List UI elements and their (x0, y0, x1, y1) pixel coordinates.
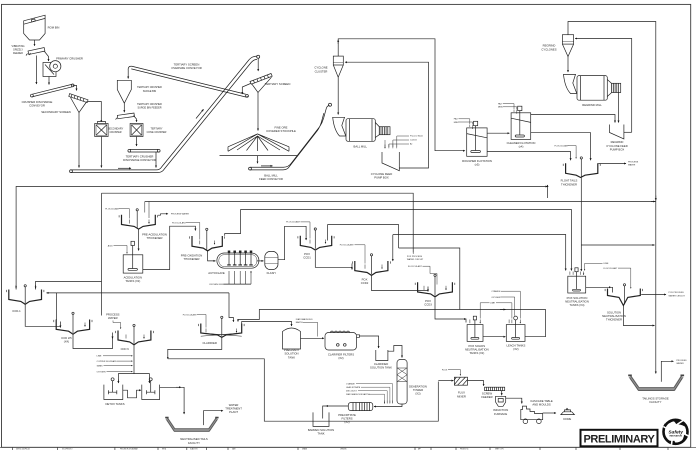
ccd 2/5 thickeners (54, 312, 92, 343)
wire: rougher concentrate to cleaner (487, 132, 509, 134)
svg-text:TERTIARY: TERTIARY (151, 128, 163, 131)
wire: ccd-1 underflow to ccd-2/5 (25, 304, 60, 327)
wire: conveyor head to secondary screen (73, 85, 77, 90)
svg-text:OXYGEN: OXYGEN (209, 284, 218, 286)
wire: flocculant to pox ccd1 (286, 221, 310, 239)
svg-text:SCREW: SCREW (482, 392, 493, 396)
svg-text:SOLUTION: SOLUTION (284, 352, 298, 356)
wire: trunk F to pox solution neutralisation (393, 235, 566, 271)
svg-text:(x5): (x5) (475, 163, 480, 167)
wire: autoclave to flash (257, 260, 264, 262)
pox ccd2 thickener (352, 254, 390, 285)
wire: pox ccd3 underflow to pox solids neutralisation (435, 298, 466, 323)
svg-text:POX: POX (425, 299, 431, 303)
cascade table and moulds (521, 399, 553, 423)
svg-text:ROUGHER FLOTATION: ROUGHER FLOTATION (462, 159, 492, 163)
wire: secondary screen oversize to secondary crusher (88, 102, 102, 122)
flash vessel (265, 251, 278, 275)
svg-text:ACID: ACID (108, 244, 113, 247)
svg-text:CASCADE TABLE: CASCADE TABLE (530, 399, 553, 403)
svg-text:LIME: LIME (490, 303, 495, 305)
svg-text:CLEANER FLOTATION: CLEANER FLOTATION (507, 141, 536, 145)
tertiary crusher discharge conveyor (123, 149, 160, 162)
svg-text:REGRIND: REGRIND (543, 44, 556, 48)
precipitate filters (338, 403, 373, 425)
wire: process water to ccd-6 (106, 313, 121, 329)
svg-text:TERTIARY CRUSHER: TERTIARY CRUSHER (137, 103, 162, 106)
svg-text:PRE-OXIDATION: PRE-OXIDATION (181, 254, 203, 258)
wire: surge bin to feeder (123, 103, 125, 112)
svg-text:TERTIARY CRUSHER: TERTIARY CRUSHER (137, 86, 162, 89)
svg-text:CCD-1: CCD-1 (12, 309, 21, 313)
svg-text:CYCLONE FEED: CYCLONE FEED (371, 172, 392, 176)
mill feed collection conveyor with incline to tertiary screen (70, 55, 260, 172)
wire: tower bottom to precipitate filters (374, 404, 402, 407)
svg-text:FLOCCULANT: FLOCCULANT (604, 267, 619, 270)
wire: reagent dosing into precipitate feed (346, 383, 393, 404)
wire: grizzly undersize to discharge conveyor (35, 56, 37, 85)
ball mill (333, 117, 390, 148)
svg-text:COPPER SULPHATE: COPPER SULPHATE (97, 360, 118, 363)
svg-text:AUTOCLAVE: AUTOCLAVE (208, 271, 225, 275)
clarifier filters (325, 331, 360, 360)
svg-text:PROCESS: PROCESS (628, 162, 639, 164)
svg-text:CYCLONE FEED: CYCLONE FEED (606, 144, 627, 148)
wire: trunk B left drop with tee (36, 193, 102, 315)
wire: rougher tails to float tails thickener (487, 152, 570, 161)
wire: flash to pox ccd1 (278, 226, 306, 259)
neutralised tails facility (165, 417, 218, 445)
svg-text:FLOCCULANT: FLOCCULANT (183, 313, 198, 316)
wire: acidulation tanks to pre-oxidation thickener (143, 226, 196, 269)
svg-text:BARREN SOLUTION: BARREN SOLUTION (308, 428, 334, 432)
wire: pre-ox underflow to autoclave (208, 251, 216, 261)
svg-text:POX: POX (362, 277, 368, 281)
svg-text:TERTIARY SCREEN: TERTIARY SCREEN (174, 63, 200, 67)
secondary crusher (95, 122, 124, 137)
svg-text:PRELIMINARY: PRELIMINARY (584, 434, 656, 446)
wire: precipitate feed into flux mixer (438, 380, 453, 382)
wire: smbs dosing (97, 365, 133, 367)
solution neutralisation thickener (602, 284, 643, 322)
svg-text:CLARIFIED: CLARIFIED (374, 362, 388, 366)
wire: tertiary discharge conveyor drop (155, 152, 157, 168)
svg-text:CLARIFIER: CLARIFIER (203, 341, 217, 345)
wire: pox ccd2 overflow return to ccd1 (328, 225, 399, 248)
svg-text:DORE: DORE (563, 417, 571, 421)
wire: float thickener overflow process water (598, 162, 638, 167)
wire: tertiary screen undersize to stockpile (257, 93, 259, 131)
svg-text:FLOCCULANT: FLOCCULANT (172, 221, 187, 224)
induction furnace (493, 396, 508, 416)
wire: trunk A arrow into CCD-1 (15, 285, 17, 288)
svg-text:TANKS (X2): TANKS (X2) (125, 279, 140, 283)
svg-text:CYCLONE: CYCLONE (314, 66, 327, 70)
dore bullion (561, 408, 575, 421)
wire: flocculant to pox ccd3 (408, 265, 437, 285)
acidulation tanks (123, 241, 143, 283)
pox process water circuit label (407, 253, 424, 261)
svg-text:TANKS (X2): TANKS (X2) (469, 351, 484, 355)
svg-text:THICKENER: THICKENER (561, 182, 577, 186)
svg-text:FACILITY: FACILITY (650, 400, 662, 404)
svg-text:LEAD NITRATE: LEAD NITRATE (346, 386, 361, 389)
svg-text:THICKENER: THICKENER (147, 236, 163, 240)
svg-text:Process Water: Process Water (410, 135, 423, 138)
wire: pox solution tanks to thickener (586, 287, 613, 292)
PRELIMINARY stamp box (581, 430, 658, 447)
tertiary screen oversize conveyor incline (128, 63, 248, 98)
wire: cyclone overflow arrow (337, 40, 339, 44)
svg-text:CCD1: CCD1 (303, 256, 311, 260)
svg-text:DIATOMACEOUS: DIATOMACEOUS (296, 318, 313, 321)
svg-text:MIXER: MIXER (457, 394, 466, 398)
svg-text:PLANT: PLANT (229, 410, 238, 414)
svg-text:TREATMENT: TREATMENT (225, 407, 242, 411)
tertiary crusher surge bin feeder (116, 103, 162, 120)
wire: arrow into CCD-1 from tee (35, 285, 37, 288)
svg-text:TANK: TANK (317, 432, 324, 436)
wire: filters to clarified solution tank (360, 336, 379, 348)
deaeration tower (397, 360, 427, 405)
svg-text:CONE CRUSHER: CONE CRUSHER (147, 131, 167, 134)
wire: pregnant tank to clarifier filters (301, 337, 325, 339)
svg-text:TERTIARY SCREEN: TERTIARY SCREEN (265, 82, 291, 86)
wire: secondary crusher discharge (100, 137, 102, 168)
svg-text:NEUTRALISED TAILS: NEUTRALISED TAILS (180, 437, 208, 441)
svg-text:CLARIFIER FILTERS: CLARIFIER FILTERS (328, 352, 354, 356)
svg-text:POX PROCESS: POX PROCESS (669, 292, 685, 294)
svg-text:CYCLONES: CYCLONES (541, 47, 556, 51)
tertiary cone crusher (130, 124, 167, 137)
svg-text:MIBC: MIBC (498, 107, 504, 109)
pox solution neutralisation tanks (565, 268, 589, 307)
wire: copper sulphate dosing (97, 360, 133, 363)
svg-text:REGRIND MILL: REGRIND MILL (582, 103, 602, 107)
svg-text:LIME: LIME (97, 356, 102, 358)
wire: detox feed arrows (117, 380, 119, 384)
wire: detox discharge arrow mid (176, 386, 181, 388)
detox tanks (104, 378, 160, 406)
svg-text:(X2): (X2) (344, 420, 349, 424)
svg-text:FURNACE: FURNACE (494, 412, 507, 416)
svg-text:TOWER: TOWER (413, 388, 423, 392)
svg-text:(X2): (X2) (338, 356, 343, 360)
wire: screw feeder to induction furnace (501, 391, 503, 396)
svg-text:WATER: WATER (229, 403, 239, 407)
wire: cleaner tails to float tails thickener (531, 133, 591, 161)
wire: ccd-1 overflow drop to clarifier (229, 293, 233, 322)
svg-text:COVERED STOCKPILE: COVERED STOCKPILE (266, 129, 296, 133)
wire: ccd2 overflow return into ccd-1 (47, 292, 230, 294)
svg-text:POX SOLIDS: POX SOLIDS (468, 344, 485, 348)
cleaner flotation cells (498, 102, 535, 148)
svg-text:PUMP BOX: PUMP BOX (610, 147, 625, 151)
wire: precipitate filters to barren tank (323, 406, 349, 419)
svg-text:THICKENER: THICKENER (184, 257, 200, 261)
clarifier (198, 316, 244, 345)
svg-text:CCD2: CCD2 (361, 281, 369, 285)
svg-text:TANK: TANK (288, 355, 295, 359)
wire: regrind cyclone underflow to regrind mill (567, 57, 569, 73)
wire: pox ccd2 underflow to pox ccd3 (372, 276, 429, 292)
wire: primary crusher discharge (48, 77, 50, 85)
svg-text:PAX: PAX (498, 102, 503, 105)
wire: ccd-6 underflow tee to detox tanks (118, 345, 149, 383)
screw feeder (481, 387, 504, 399)
tertiary screen (250, 74, 290, 93)
wire: regrind mill discharge to pump box (618, 93, 620, 123)
secondary screen (41, 94, 88, 114)
svg-text:FLOCCULANT: FLOCCULANT (286, 221, 301, 224)
wire: clarifier underflow return (168, 337, 222, 359)
svg-text:FLOCCULANT: FLOCCULANT (340, 244, 355, 247)
svg-text:DISCHARGE CONVEYOR: DISCHARGE CONVEYOR (123, 158, 156, 162)
svg-text:SMBS: SMBS (97, 365, 104, 367)
svg-text:FLOCCULANT: FLOCCULANT (408, 265, 423, 268)
svg-text:OVERSIZE CONVEYOR: OVERSIZE CONVEYOR (171, 66, 201, 70)
svg-text:DETOX TANKS: DETOX TANKS (105, 402, 124, 406)
svg-text:FLASH: FLASH (267, 271, 276, 275)
wire: pox solids to leach tanks (483, 336, 506, 338)
svg-text:FLOAT TAILS: FLOAT TAILS (561, 179, 578, 183)
wire: thickener underflow to tailings trunk (623, 306, 654, 326)
wire: oxygen dosing (97, 371, 133, 373)
wire: flocculant to solution neutralisation thickener (604, 267, 631, 289)
wire: reclaim to water treatment plant (204, 403, 243, 425)
svg-text:POX: POX (304, 252, 310, 256)
svg-text:CONVEYOR: CONVEYOR (29, 103, 45, 107)
company logo swirl (663, 420, 689, 445)
wire: tailings reclaim process water (661, 360, 687, 382)
svg-text:FINE ORE: FINE ORE (275, 125, 288, 129)
wire: leach discharge riser to clarifier (238, 310, 546, 337)
svg-text:WATER: WATER (676, 362, 684, 365)
svg-text:FLOCCULANT: FLOCCULANT (105, 207, 120, 210)
wire: regrind overflow main right trunk (568, 22, 656, 374)
svg-text:ACIDULATION: ACIDULATION (124, 276, 142, 280)
leach tanks (506, 316, 525, 351)
svg-text:NEUTRALISATION: NEUTRALISATION (602, 314, 626, 318)
svg-text:FEED CONVEYOR: FEED CONVEYOR (259, 177, 283, 181)
svg-text:(x4): (x4) (519, 145, 524, 149)
svg-text:FLUX: FLUX (442, 369, 448, 371)
svg-text:WATER CIRCUIT: WATER CIRCUIT (669, 294, 686, 297)
svg-text:THICKENER: THICKENER (606, 318, 622, 322)
svg-text:SOLUTION: SOLUTION (607, 310, 621, 314)
svg-text:ROM BIN: ROM BIN (48, 25, 60, 29)
svg-text:FLUX: FLUX (458, 391, 465, 395)
float tails thickener (561, 157, 601, 187)
wire: trunk E pre-oxidation thickener overflow to pox solution neutralisation (241, 210, 572, 271)
svg-text:DEAERATION: DEAERATION (409, 385, 427, 389)
wire: stockpile reclaim drop (257, 156, 259, 164)
wire: flocculant to clarifier (183, 313, 206, 327)
wire: cascade to dore (543, 412, 556, 414)
barren solution tank (308, 412, 334, 435)
svg-text:Safety: Safety (668, 429, 683, 435)
svg-text:TANKS (X4): TANKS (X4) (570, 303, 585, 307)
svg-text:CCD 6: CCD 6 (121, 347, 130, 351)
tertiary crusher surge bin (117, 80, 162, 103)
svg-text:POX PROCESS: POX PROCESS (407, 256, 423, 258)
wire: grizzly oversize to primary crusher (45, 52, 49, 62)
wire: trunk D drop into pre-acid thickener (145, 202, 149, 219)
wire: cyanide dosing to leach (491, 290, 520, 319)
clarified solution tank (370, 350, 392, 369)
svg-text:WATER: WATER (108, 316, 118, 320)
svg-text:FLOCCULANT: FLOCCULANT (555, 144, 570, 147)
svg-text:PRE-ACIDULATION: PRE-ACIDULATION (142, 233, 167, 237)
wire: regrind cyclone feed from pump box (575, 39, 632, 133)
wire: right trunk arrow at flotation level (655, 196, 657, 201)
ccd-6 thickener (116, 324, 154, 351)
svg-text:BALL MILL: BALL MILL (354, 145, 368, 149)
autoclave (208, 251, 259, 284)
wire: acid dosing (108, 244, 127, 253)
wire: pre-acid underflow to acidulation tanks (138, 229, 140, 250)
svg-text:PRECIPITATE: PRECIPITATE (338, 413, 356, 417)
svg-text:CYANIDE: CYANIDE (491, 290, 501, 293)
svg-text:SURGE BIN: SURGE BIN (143, 90, 157, 93)
wire: flocculant to pre-ox thickener (172, 221, 200, 239)
ball mill feed conveyor (249, 103, 332, 181)
svg-text:(X4): (X4) (64, 339, 69, 343)
svg-text:(X2): (X2) (513, 347, 518, 351)
wire: oversize conveyor into surge bin (127, 70, 129, 79)
svg-text:ZINC DUST: ZINC DUST (346, 391, 357, 393)
primary crusher (43, 57, 83, 77)
cyclone feed pump box (371, 152, 400, 180)
wire: flocculant to pre-acidulation thickener (105, 207, 129, 218)
svg-text:OXYGEN: OXYGEN (97, 371, 106, 373)
rougher flotation cells (454, 118, 492, 167)
svg-text:(X2): (X2) (415, 392, 420, 396)
wire: feeder to tertiary cone crusher (134, 116, 137, 122)
wire: pre-acid overflow process water (158, 213, 190, 216)
svg-text:INDUCTION: INDUCTION (493, 408, 508, 412)
wire: oxygen dosing to leach (491, 297, 514, 316)
wire: flux mixer to screw feeder (468, 381, 484, 386)
wire: trunk A pox liquor to CCD-1 (16, 187, 547, 290)
svg-text:LIME: LIME (604, 263, 609, 265)
wire: flocculant to float tails thickener (555, 144, 577, 158)
wire: ccd-2 overflow riser (56, 293, 58, 320)
wire: trunk D right junction arrow (651, 201, 655, 203)
wire: tertiary screen oversize return (242, 84, 250, 95)
svg-text:PREGNANT: PREGNANT (284, 348, 300, 352)
wire: thickener overflow pox process water (641, 292, 685, 297)
wire: detox discharge to neutralised tails (160, 387, 185, 414)
svg-text:POX SOLUTION: POX SOLUTION (567, 296, 588, 300)
wire: clarified tank to deaeration tower (388, 346, 402, 358)
svg-text:WATER: WATER (628, 164, 636, 167)
wire: oxygen to autoclave (209, 284, 224, 286)
svg-text:CRUSHER DISCHARGE: CRUSHER DISCHARGE (22, 100, 53, 104)
svg-text:AND MOULDS: AND MOULDS (532, 403, 551, 407)
wire: secondary screen undersize (78, 113, 80, 168)
wire: screen feed drop (257, 59, 259, 72)
wire: pump box discharge riser to cyclone cluster (345, 62, 429, 168)
svg-text:CCD 2/5: CCD 2/5 (61, 336, 72, 340)
svg-text:TERTIARY CRUSHER: TERTIARY CRUSHER (126, 155, 154, 159)
svg-text:SURGE BIN FEEDER: SURGE BIN FEEDER (138, 107, 162, 110)
wire: float thickener underflow down to pox neutralisation (580, 178, 582, 272)
svg-text:EARTH: EARTH (296, 321, 304, 324)
ROM bin (24, 15, 60, 40)
wire: furnace to cascade table (506, 398, 522, 403)
tailings storage facility (628, 375, 684, 404)
svg-text:REGRIND: REGRIND (611, 140, 624, 144)
wire: cyclone underflow to ball mill (337, 77, 339, 114)
svg-text:CYANIDE: CYANIDE (346, 383, 355, 386)
wire: ROM bin to grizzly feeder (34, 40, 36, 46)
pregnant solution tank (283, 328, 301, 359)
svg-text:DIATOMACEOUS EARTH: DIATOMACEOUS EARTH (346, 393, 370, 396)
title strip bottom (0, 447, 696, 450)
wire: pre-ox overflow riser to trunk E (225, 209, 241, 235)
wire: lime dosing to detox feed (97, 356, 133, 358)
crusher discharge conveyor (22, 84, 74, 107)
wire: cyclone overflow to rougher flotation (338, 39, 465, 151)
svg-text:PROCESS WATER: PROCESS WATER (171, 213, 190, 216)
svg-text:SOLUTION TANK: SOLUTION TANK (370, 365, 392, 369)
svg-text:TAILINGS STORAGE: TAILINGS STORAGE (642, 396, 669, 400)
vibrating grizzly feeder (12, 45, 45, 55)
svg-text:CCD3: CCD3 (424, 303, 432, 307)
wire: vertical A-C connector (547, 185, 549, 198)
wire: mill feed water dosing labels (385, 135, 423, 149)
svg-text:SECONDARY SCREEN: SECONDARY SCREEN (41, 110, 71, 114)
svg-text:INNOVATION: INNOVATION (669, 435, 682, 438)
pox solids neutralisation tanks (465, 316, 489, 355)
wire: pox ccd1 underflow to pox ccd2 (315, 251, 352, 270)
fine ore covered stockpile (220, 125, 299, 155)
regrind cyclone feed pump box (606, 125, 631, 152)
pre-oxidation thickener (181, 228, 225, 261)
svg-text:BALL MILL: BALL MILL (264, 173, 278, 177)
wire: trunk F drop to pox ccd2 (392, 235, 394, 261)
wire: trunk D long liquor return (145, 201, 656, 203)
wire: leach discharge arrow (500, 309, 506, 311)
svg-text:FILTERS: FILTERS (341, 416, 352, 420)
svg-text:LEACH TANKS: LEACH TANKS (506, 344, 525, 348)
svg-text:NEUTRALISATION: NEUTRALISATION (565, 300, 589, 304)
svg-text:PUMP BOX: PUMP BOX (374, 176, 389, 180)
svg-text:FEEDER: FEEDER (13, 52, 23, 55)
wire: flocculant to pox ccd2 (340, 244, 365, 264)
ccd-1 thickener (6, 285, 44, 313)
wire: tertiary crusher discharge (136, 137, 138, 147)
svg-text:PAX: PAX (454, 118, 459, 121)
flux mixer (454, 377, 467, 398)
svg-text:Air: Air (410, 143, 413, 146)
pox ccd3 thickener (415, 274, 455, 307)
svg-text:WATER CIRCUIT: WATER CIRCUIT (407, 258, 424, 261)
pre-acidulation thickener (119, 209, 167, 241)
wire: trunk B (102, 193, 414, 252)
svg-text:CLUSTER: CLUSTER (315, 69, 328, 73)
svg-text:PROCESS: PROCESS (106, 313, 120, 317)
wire: lime dosing to pox solids and leach (480, 303, 512, 319)
wire: ccd 2/5 underflow to ccd-6 (73, 333, 113, 349)
svg-text:PRIMARY CRUSHER: PRIMARY CRUSHER (56, 57, 83, 61)
svg-text:CRUSHER: CRUSHER (109, 131, 121, 134)
svg-text:FACILITY: FACILITY (188, 441, 200, 445)
wire: clarifier overflow to pregnant solution tank (242, 322, 292, 327)
svg-text:CuSO4: CuSO4 (410, 140, 417, 142)
wire: flux dosing (442, 369, 461, 375)
